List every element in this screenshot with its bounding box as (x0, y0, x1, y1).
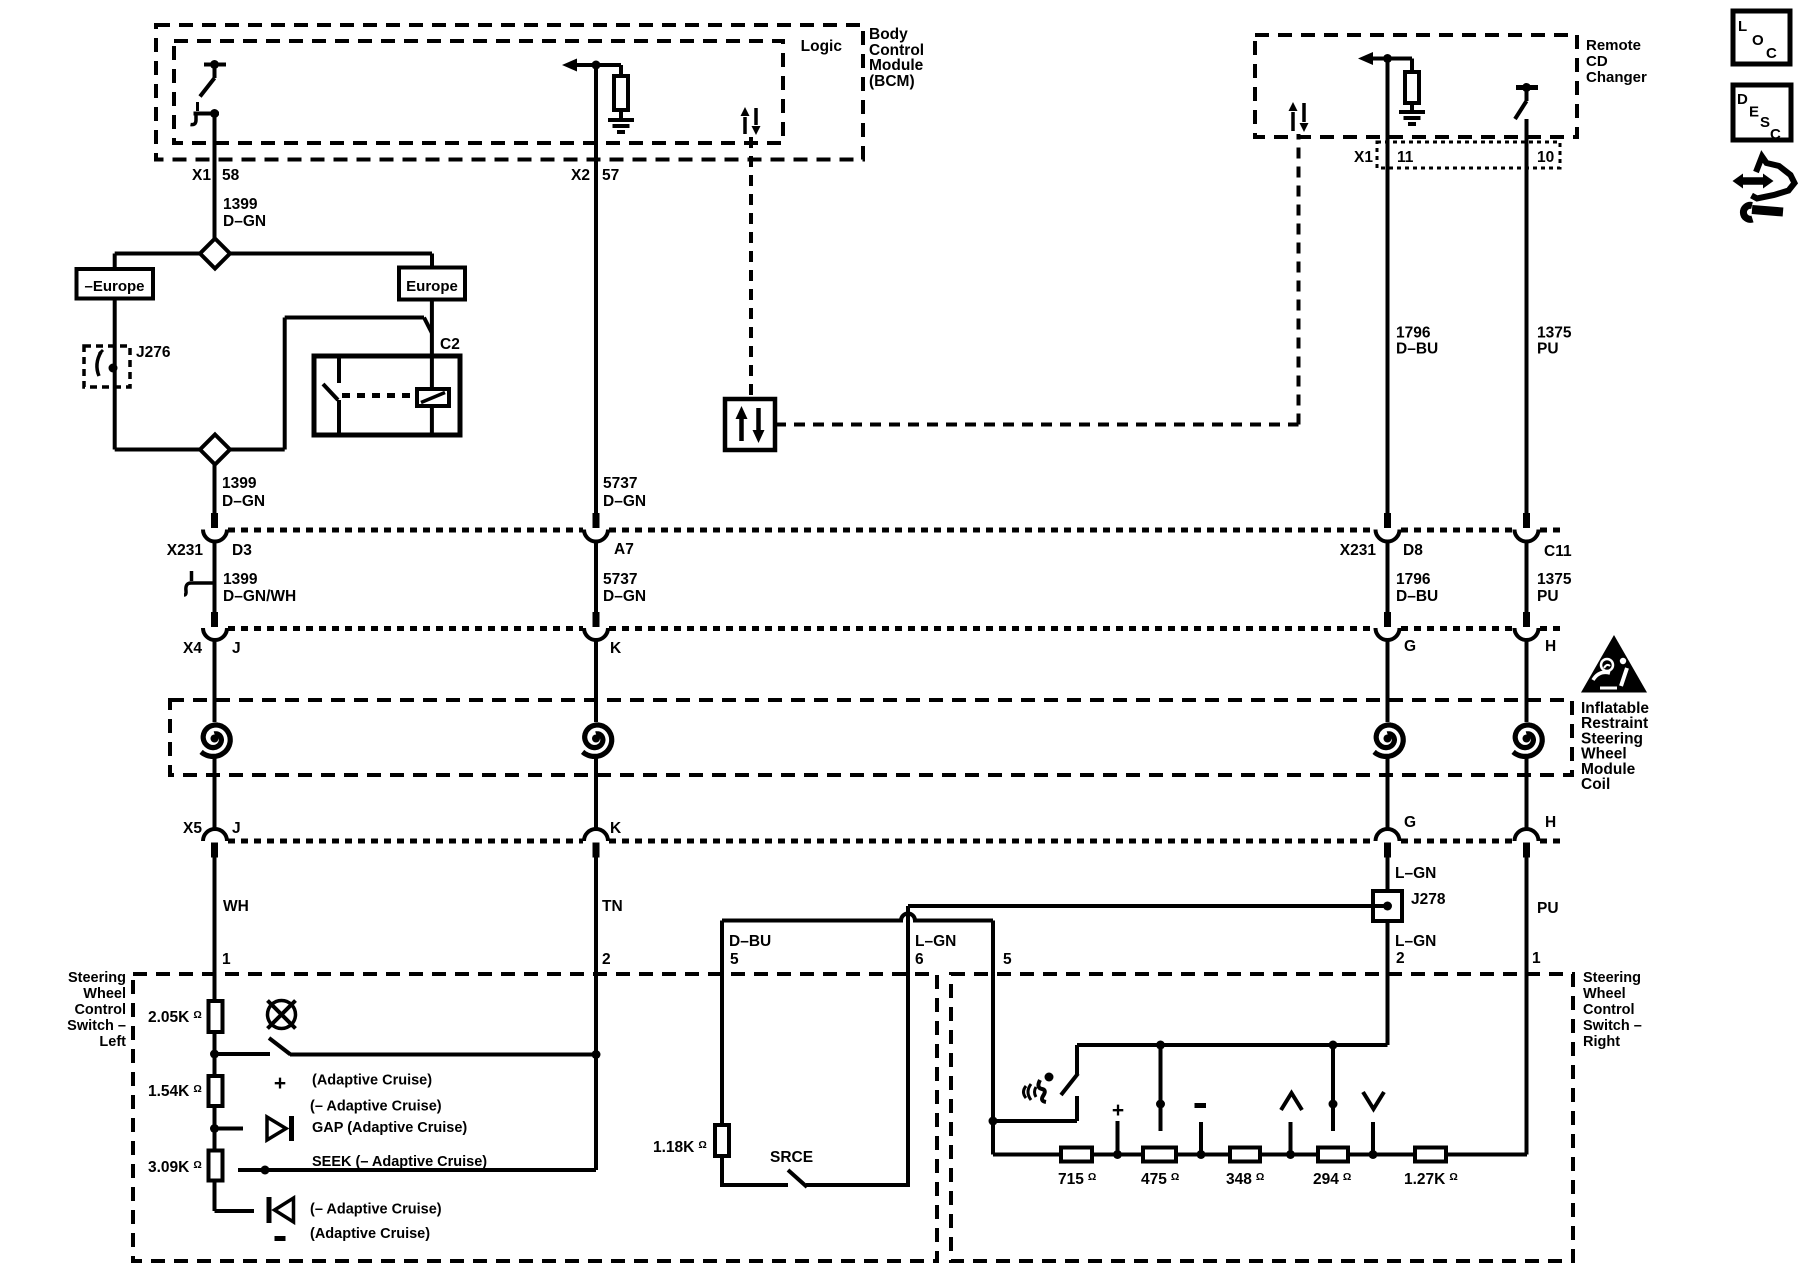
connector cup X231 D8 (1376, 530, 1400, 542)
svg-text:K: K (610, 640, 622, 657)
wire down-contact vertical (1331, 1045, 1335, 1131)
connector cup X4 K (584, 628, 608, 640)
wire D3 to X4 J (213, 541, 217, 612)
wire 2.05K to 1.54K (213, 1032, 217, 1076)
contact dot (up) (1156, 1100, 1165, 1109)
junction chain at + (1113, 1150, 1122, 1159)
svg-text:1: 1 (222, 951, 231, 968)
dashed data wire vertical to CD changer arrows (1297, 134, 1301, 425)
junction top rail / down contact (1329, 1041, 1338, 1050)
connector cup X231 C11 (1515, 530, 1539, 542)
wire 3.09K down (213, 1181, 217, 1212)
svg-text:PU: PU (1537, 341, 1559, 358)
svg-text:S: S (1760, 114, 1770, 131)
SRCE switch blade (788, 1170, 807, 1187)
wire down into -Europe box (113, 254, 117, 270)
wire lamp switch to TN wire (290, 1053, 596, 1057)
warning triangle icon (1581, 635, 1647, 693)
svg-text:2.05KΩ: 2.05KΩ (148, 1009, 202, 1026)
svg-text:+: + (274, 1072, 286, 1095)
wire X1-58 down to diamond splice (213, 114, 217, 240)
wire coil to X5 G (1386, 757, 1390, 829)
svg-text:D–BU: D–BU (1396, 341, 1438, 358)
connector row X4 dashed line (228, 626, 583, 631)
resistor 3.09K (209, 1151, 223, 1181)
svg-text:1375: 1375 (1537, 571, 1572, 588)
junction chain at down (1369, 1150, 1378, 1159)
pin into X231 D3 (211, 513, 218, 528)
svg-text:C11: C11 (1544, 543, 1572, 560)
up contact stub (1289, 1122, 1293, 1155)
svg-text:2: 2 (1396, 950, 1405, 967)
dashed data wire to Remote CD Changer (775, 423, 1299, 427)
wire X4 K into coil (594, 641, 598, 722)
label up chevron (1281, 1093, 1302, 1110)
ground (CD changer internal) (1399, 112, 1425, 124)
svg-text:D–GN/WH: D–GN/WH (223, 588, 296, 605)
Europe option box (399, 268, 465, 300)
junction on TN wire (592, 1050, 601, 1059)
wire Europe box through relay C2 (430, 300, 434, 434)
CD changer internal wire to resistor (1363, 57, 1412, 61)
svg-text:Remote: Remote (1586, 37, 1641, 54)
junction on pin11 internal wire (1383, 54, 1392, 63)
pin below X5 G (1384, 843, 1391, 858)
wire SEEK to TN wire (238, 1168, 596, 1172)
wire coil to X5 H (1525, 757, 1529, 829)
svg-text:3.09KΩ: 3.09KΩ (148, 1159, 202, 1176)
- contact stub (1199, 1122, 1203, 1155)
junction at lamp switch wire (210, 1050, 219, 1059)
DESC icon box (1733, 85, 1791, 140)
svg-text:–Europe: –Europe (84, 278, 144, 295)
svg-text:J278: J278 (1411, 891, 1446, 908)
svg-text:(– Adaptive Cruise): (– Adaptive Cruise) (310, 1202, 442, 1218)
wire X4 J into coil (213, 641, 217, 722)
wire A7 to X4 K (594, 541, 598, 612)
svg-text:Switch –: Switch – (1583, 1018, 1642, 1034)
label - (volume down) (275, 1236, 286, 1241)
junction in J278 (1383, 902, 1392, 911)
coil spiral (K) (583, 725, 612, 756)
svg-text:L–GN: L–GN (915, 933, 956, 950)
wire -Europe box to J276 (113, 299, 117, 346)
wire C11 to X4 H (1525, 541, 1529, 612)
svg-text:PU: PU (1537, 588, 1559, 605)
junction top rail / up contact (1156, 1041, 1165, 1050)
resistor 2.05K (209, 1001, 223, 1032)
wire to CD resistor (1410, 59, 1414, 73)
relay C2 coil (417, 389, 449, 406)
svg-text:Europe: Europe (406, 278, 458, 295)
wire D8 to X4 G (1386, 541, 1390, 612)
connector cup X5 K (584, 829, 608, 841)
J276 jumper switch (113, 345, 117, 387)
svg-text:D–GN: D–GN (222, 493, 265, 510)
svg-text:Body: Body (869, 26, 908, 43)
pin below X5 H (1523, 843, 1530, 858)
svg-text:SEEK (– Adaptive Cruise): SEEK (– Adaptive Cruise) (312, 1154, 487, 1170)
svg-text:C: C (1770, 126, 1781, 143)
wire diamond to Europe (230, 252, 432, 256)
switch blade (lamp switch) (269, 1038, 291, 1055)
svg-text:Logic: Logic (801, 38, 843, 55)
svg-text:5737: 5737 (603, 571, 637, 588)
wire pin 5 down to resistor chain (991, 921, 995, 1155)
wire J276 to lower diamond (113, 387, 117, 450)
BCM internal switch S1 (X1 pin 58) (204, 63, 226, 67)
wire X5 K (TN) down to left switch (594, 857, 598, 1170)
svg-text:Control: Control (74, 1002, 126, 1018)
svg-text:X4: X4 (183, 640, 202, 657)
svg-text:X2: X2 (571, 167, 590, 184)
wire to lower diamond (115, 448, 200, 452)
up/down data arrows (BCM logic) (745, 108, 756, 134)
pin into X4 J (211, 612, 218, 627)
junction at GAP branch (210, 1124, 219, 1133)
pin into X4 G (1384, 612, 1391, 627)
wire junction to lamp switch (215, 1052, 271, 1056)
wire lower diamond to relay branch (230, 448, 285, 452)
down contact stub (1371, 1122, 1375, 1155)
svg-text:C: C (1766, 45, 1777, 62)
svg-text:TN: TN (602, 898, 623, 915)
svg-text:348Ω: 348Ω (1226, 1171, 1264, 1188)
connector row X231 dashed line (228, 528, 583, 533)
connector X1 dotted box (CD changer) (1377, 142, 1560, 168)
pin into X231 C11 (1523, 513, 1530, 528)
wire pin10 (1375 PU) down to C11 (1525, 119, 1529, 514)
svg-text:D–GN: D–GN (603, 493, 646, 510)
pin below X5 K (593, 843, 600, 858)
up/down data arrows (CD changer) (1293, 103, 1304, 131)
svg-text:1: 1 (1532, 950, 1541, 967)
wire BCM internal to resistor (567, 63, 621, 67)
wire CD resistor to ground (1410, 103, 1414, 112)
resistor R-CD pull-up (1405, 72, 1419, 103)
clip/hook symbol at D3 (184, 583, 214, 595)
pin into X231 D8 (1384, 513, 1391, 528)
junction on SEEK wire (261, 1166, 270, 1175)
Inflatable Restraint Steering Wheel Module Coil dashed box (170, 700, 1572, 775)
wire X5 J (WH) down to left switch (213, 857, 217, 1002)
svg-text:G: G (1404, 814, 1416, 831)
BCM Logic inner dashed box (174, 41, 783, 143)
ground (BCM internal) (608, 120, 634, 132)
svg-text:WH: WH (223, 898, 249, 915)
lower diode symbol (reversed) (267, 1197, 272, 1223)
svg-text:58: 58 (222, 167, 240, 184)
svg-text:1796: 1796 (1396, 571, 1431, 588)
wire X5 G (L-GN) down to J278 (1386, 857, 1390, 892)
wire top rail to mute switch (1075, 1045, 1079, 1074)
wire J278 (L-GN) to right switch pin 2 (1386, 921, 1390, 1045)
mute switch blade (1061, 1074, 1078, 1096)
svg-text:Changer: Changer (1586, 69, 1647, 86)
Steering Wheel Control Switch - Right dashed box (951, 974, 1573, 1261)
pin into X4 K (593, 612, 600, 627)
svg-text:Control: Control (1583, 1002, 1635, 1018)
svg-text:X1: X1 (192, 167, 211, 184)
contact dot (down) (1329, 1100, 1338, 1109)
svg-text:H: H (1545, 814, 1556, 831)
svg-text:D: D (1737, 91, 1748, 108)
svg-text:1.27KΩ: 1.27KΩ (1404, 1171, 1458, 1188)
wire 1.18K down (720, 1156, 724, 1187)
svg-text:Coil: Coil (1581, 776, 1610, 793)
pin into X4 H (1523, 612, 1530, 627)
arrowhead (CD changer signal) (1358, 52, 1373, 65)
svg-text:SRCE: SRCE (770, 1149, 813, 1166)
wire to resistor R-BCM (619, 65, 623, 76)
svg-text:Wheel: Wheel (83, 986, 126, 1002)
GAP diode symbol (267, 1117, 286, 1140)
svg-text:K: K (610, 820, 622, 837)
svg-text:(BCM): (BCM) (869, 73, 915, 90)
svg-text:1399: 1399 (223, 571, 258, 588)
pin into X231 A7 (593, 513, 600, 528)
connector cup X5 J (203, 829, 227, 841)
connector cup X231 D3 (203, 530, 227, 542)
svg-text:J276: J276 (136, 344, 171, 361)
svg-text:X231: X231 (167, 542, 204, 559)
svg-text:D–BU: D–BU (729, 933, 771, 950)
coil spiral (J) (201, 725, 230, 756)
svg-text:L: L (1738, 18, 1747, 35)
svg-text:CD: CD (1586, 53, 1608, 70)
wire X2-57 (5737 D-GN) down to A7 (594, 65, 598, 514)
+ contact stub (1116, 1121, 1120, 1155)
wire diamond to -Europe (115, 252, 200, 256)
wire X4 G into coil (1386, 641, 1390, 722)
wire pin11 (1796 D-BU) down to X231 D8 (1386, 59, 1390, 515)
svg-text:(Adaptive Cruise): (Adaptive Cruise) (312, 1073, 432, 1089)
relay C2 box (314, 356, 460, 435)
LOC icon box (1733, 11, 1790, 64)
Body Control Module (BCM) outer dashed box (156, 25, 863, 160)
svg-text:Steering: Steering (68, 970, 126, 986)
connector cup X231 A7 (584, 530, 608, 542)
svg-text:E: E (1749, 104, 1759, 121)
wire stub to GAP diode (215, 1127, 244, 1131)
svg-text:GAP (Adaptive Cruise): GAP (Adaptive Cruise) (312, 1120, 467, 1136)
CD changer internal switch (pin 10) (1516, 85, 1538, 90)
svg-text:10: 10 (1537, 149, 1554, 166)
wire to relay C2 (285, 316, 424, 320)
svg-text:715Ω: 715Ω (1058, 1171, 1096, 1188)
dashed data wire BCM logic to serial-data box (749, 137, 753, 399)
arrowhead (signal into logic) (562, 59, 577, 72)
svg-text:Wheel: Wheel (1583, 986, 1626, 1002)
wire 1.54K to 3.09K (213, 1106, 217, 1151)
svg-text:1375: 1375 (1537, 325, 1572, 342)
wire diamond to X231 D3 (213, 465, 217, 515)
svg-text:Right: Right (1583, 1034, 1620, 1050)
junction chain at up (1286, 1150, 1295, 1159)
svg-text:Left: Left (99, 1034, 126, 1050)
svg-text:D8: D8 (1403, 542, 1423, 559)
svg-text:Steering: Steering (1583, 970, 1641, 986)
connector cup X5 H (1515, 829, 1539, 841)
svg-text:1399: 1399 (222, 475, 257, 492)
wire up-contact vertical (1159, 1045, 1163, 1131)
svg-text:(Adaptive Cruise): (Adaptive Cruise) (310, 1226, 430, 1242)
svg-text:1399: 1399 (223, 196, 258, 213)
wire up to relay C2 branch (283, 318, 287, 450)
relay C2 contact (337, 358, 341, 383)
svg-text:+: + (1112, 1099, 1124, 1122)
relay C2 mechanical link (dashed) (342, 393, 416, 398)
svg-text:1.18KΩ: 1.18KΩ (653, 1139, 707, 1156)
svg-text:L–GN: L–GN (1395, 865, 1436, 882)
svg-text:J: J (232, 820, 241, 837)
svg-text:1796: 1796 (1396, 325, 1431, 342)
svg-text:D3: D3 (232, 542, 252, 559)
wire resistor to ground (619, 110, 623, 120)
serial data up/down box (725, 399, 775, 450)
resistor 1.18K (715, 1125, 729, 1156)
wire SRCE branch to J278 (908, 904, 1388, 908)
svg-text:X5: X5 (183, 820, 202, 837)
speaker / voice icon (1024, 1084, 1037, 1100)
junction chain at - (1197, 1150, 1206, 1159)
wire D-BU pin 5 down to 1.18K resistor (720, 921, 724, 1126)
navigation arrows icon (1733, 157, 1795, 220)
coil spiral (H) (1513, 725, 1542, 756)
svg-text:5: 5 (1003, 951, 1012, 968)
mute switch lower contact stub (1075, 1096, 1079, 1121)
svg-text:A7: A7 (614, 541, 634, 558)
resistor 715 ohm (1061, 1148, 1092, 1162)
wire stub to lower diode (215, 1209, 255, 1213)
J276 dashed box (84, 346, 130, 387)
up/down arrows in serial data box (742, 408, 759, 441)
label down chevron (1363, 1092, 1384, 1109)
resistor 348 ohm (1230, 1148, 1260, 1162)
-Europe option box (77, 269, 154, 299)
wire pin5 junction to mute switch contact (993, 1119, 1077, 1123)
connector cup X4 H (1515, 628, 1539, 640)
resistor 294 ohm (1318, 1148, 1348, 1162)
svg-text:X1: X1 (1354, 149, 1373, 166)
svg-text:1.54KΩ: 1.54KΩ (148, 1083, 202, 1100)
splice diamond (bottom) (200, 435, 230, 465)
svg-text:J: J (232, 640, 241, 657)
resistor 1.27K ohm (1415, 1148, 1446, 1162)
wire X5 H (PU) down to right switch pin 1 (1525, 857, 1529, 1155)
label - (right switch) (1195, 1103, 1207, 1108)
svg-text:11: 11 (1397, 149, 1414, 166)
svg-text:6: 6 (915, 951, 924, 968)
svg-text:D–GN: D–GN (223, 213, 266, 230)
Steering Wheel Control Switch - Left dashed box (133, 974, 937, 1261)
wire X4 H into coil (1525, 641, 1529, 722)
svg-text:Switch –: Switch – (67, 1018, 126, 1034)
svg-text:294Ω: 294Ω (1313, 1171, 1351, 1188)
resistor 1.54K (209, 1076, 223, 1106)
connector cup X5 G (1376, 829, 1400, 841)
svg-text:L–GN: L–GN (1395, 933, 1436, 950)
connector cup X4 J (203, 628, 227, 640)
resistor 475 ohm (1143, 1148, 1176, 1162)
svg-text:2: 2 (602, 951, 611, 968)
svg-text:D–GN: D–GN (603, 588, 646, 605)
right switch top rail (L-GN) (1077, 1043, 1388, 1047)
svg-text:5: 5 (730, 951, 739, 968)
wire down into Europe box (430, 254, 434, 268)
lamp symbol (circle-X) (268, 1001, 296, 1029)
svg-text:C2: C2 (440, 336, 460, 353)
pin below X5 J (211, 843, 218, 858)
svg-text:D–BU: D–BU (1396, 588, 1438, 605)
svg-text:X231: X231 (1340, 542, 1377, 559)
svg-text:O: O (1752, 32, 1764, 49)
svg-text:475Ω: 475Ω (1141, 1171, 1179, 1188)
resistor chain wire (993, 1153, 1527, 1157)
wire SRCE bottom left (722, 1183, 788, 1187)
svg-text:H: H (1545, 638, 1556, 655)
svg-text:G: G (1404, 638, 1416, 655)
connector row X5 dashed line (228, 839, 583, 844)
junction on X2 internal wire (592, 61, 601, 70)
wire coil to X5 J (213, 757, 217, 829)
connector cup X4 G (1376, 628, 1400, 640)
svg-text:5737: 5737 (603, 475, 637, 492)
wire coil to X5 K (594, 757, 598, 829)
svg-text:57: 57 (602, 167, 619, 184)
resistor R-BCM pull-up (614, 76, 628, 110)
svg-text:PU: PU (1537, 900, 1559, 917)
svg-text:Module: Module (869, 57, 924, 74)
junction on pin 5 wire (989, 1117, 998, 1126)
wire SRCE vertical riser (906, 906, 910, 1187)
splice diamond (top) (200, 239, 230, 269)
wire L-GN pin 6 horizontal with hop (722, 914, 993, 921)
coil spiral (G) (1374, 725, 1403, 756)
splice box J278 (1373, 891, 1402, 921)
wire SRCE bottom right (806, 1183, 910, 1187)
Remote CD Changer dashed box (1255, 35, 1577, 137)
diagonal wire joining C2 lead (424, 318, 432, 334)
svg-text:(– Adaptive Cruise): (– Adaptive Cruise) (310, 1099, 442, 1115)
